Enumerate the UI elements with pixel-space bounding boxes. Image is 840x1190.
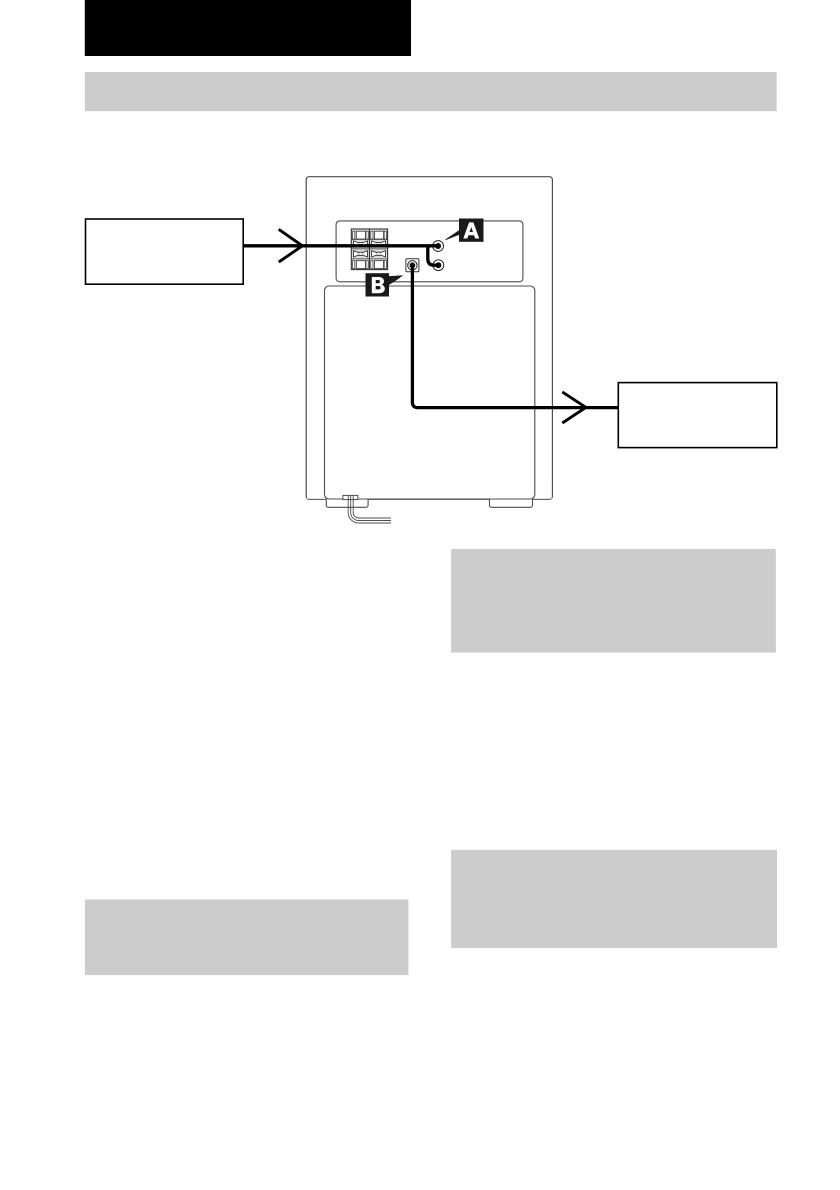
bottom clamp windows (356, 261, 365, 269)
cable from jack B (412, 265, 618, 407)
bowtie clips row 1 (354, 241, 368, 247)
note box left (85, 900, 409, 976)
rear inner panel (325, 286, 535, 499)
label B pointer (388, 275, 403, 285)
speaker right foot (490, 494, 533, 507)
speaker cabinet outline (306, 177, 552, 500)
cable to jack A (243, 244, 438, 247)
cable branch to lower jack (428, 246, 439, 265)
label B (366, 273, 390, 296)
speaker left foot (326, 494, 368, 507)
speaker terminal block (351, 229, 387, 270)
note box right 2 (451, 850, 777, 948)
top clamp windows (356, 231, 365, 239)
jack A (upper) (433, 241, 444, 252)
right arrowhead (562, 392, 586, 423)
cord exit notch (343, 495, 358, 499)
label A (459, 219, 484, 242)
callout box right (618, 383, 777, 448)
title bar (85, 0, 411, 56)
speaker cords (348, 496, 391, 524)
section header bar (85, 72, 777, 111)
note box right 1 (451, 549, 776, 653)
callout box left (86, 219, 244, 284)
label A pointer (446, 230, 462, 240)
bowtie clips row 2 (354, 251, 368, 257)
terminal panel (336, 221, 523, 282)
left arrowhead (279, 229, 303, 262)
jack B (square) (406, 259, 419, 272)
cabinet bottom edge cover (307, 480, 552, 499)
lower jack (433, 260, 444, 271)
